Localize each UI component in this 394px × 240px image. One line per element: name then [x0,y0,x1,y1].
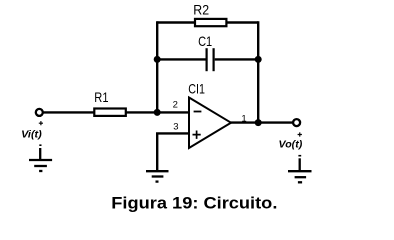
terminal Vi(t) input [36,109,43,116]
capacitor C1 [207,48,214,71]
svg-text:Vo(t): Vo(t) [279,138,303,150]
label plus polarity at input [39,121,43,125]
label plus polarity at output [298,132,302,136]
ground: output [288,158,312,182]
svg-text:R1: R1 [94,89,108,105]
resistor R1 [94,109,126,116]
wire: right vertical of feedback loop [257,21,259,122]
label minus polarity at output [298,155,301,157]
svg-text:Vi(t): Vi(t) [21,129,42,141]
resistor R2 [195,19,226,26]
svg-text:R2: R2 [193,1,209,17]
node: output junction [255,119,262,126]
svg-text:Figura 19: Circuito.: Figura 19: Circuito. [111,193,277,212]
svg-text:2: 2 [173,99,178,110]
wire: C1 left lead [157,58,205,60]
wire: output pin 1 to terminal [231,121,294,123]
node: C1 right junction [255,56,262,63]
terminal Vo(t) output [293,119,300,126]
svg-text:3: 3 [173,121,178,132]
ground: input source [29,148,52,171]
wire: left vertical of feedback loop [156,21,158,112]
svg-text:CI1: CI1 [188,80,205,96]
svg-text:C1: C1 [198,33,212,49]
wire: input through R1 to inverting input pin 2 [44,111,191,113]
node: inverting input junction [154,109,161,116]
wire: non-inverting input pin 3 down to ground [157,133,190,170]
node: C1 left junction [154,56,161,63]
ground: op-amp non-inverting input [146,171,169,181]
wire: top feedback (through R2) [157,21,258,23]
op-amp CI1 [189,98,231,149]
svg-text:1: 1 [241,113,246,124]
wire: C1 right lead [215,58,259,60]
label minus polarity at input [39,144,41,146]
